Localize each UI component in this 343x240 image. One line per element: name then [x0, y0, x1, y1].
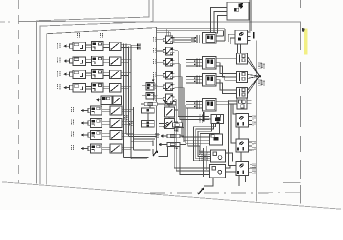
connector block R3: [237, 87, 248, 98]
wires box D to fuse R4: [216, 100, 237, 102]
relay M2 right pin stubs: [173, 48, 175, 50]
wire box C to relay R2 lower pin: [216, 77, 236, 81]
row 4 output wires to bus: [121, 85, 131, 87]
fuse P7 with left arrow: [167, 134, 180, 138]
flow arrow symbol lower left of strip: [153, 151, 157, 156]
fuse strip connection wires: [149, 106, 151, 108]
row 1 terminal label: [57, 43, 59, 49]
bus turn-outs to fuse strip (4-wire fan): [126, 133, 160, 135]
motor unit M9 (square+circle): [211, 150, 226, 162]
relay row 1 box 2: [92, 41, 104, 50]
long bus drops to unit M10: [176, 100, 209, 171]
elbow wires box B down to relay R2: [216, 63, 236, 74]
relay T right side pin stubs: [248, 31, 251, 33]
relay pair K at bus left (upper): [146, 83, 154, 91]
central bus wire drops with elbows to bottom units: [178, 51, 209, 117]
fuse F3: [141, 108, 154, 113]
switch row 1 box 3: [110, 42, 122, 50]
row 1 extension wires to terminals: [131, 44, 141, 46]
row 9 input arrow: [96, 98, 99, 101]
relay T left hook wires: [228, 34, 235, 42]
relay row 9 box 1: [101, 96, 112, 104]
relay R5 right pin wires: [248, 116, 252, 118]
wires rising into box B from below rule: [210, 8, 226, 34]
relay row 4 box 2: [92, 83, 104, 92]
relay T (top right, with pump symbol): [235, 30, 248, 44]
row 3 connector pin square: [70, 72, 73, 76]
column label 76 above left block: [77, 33, 79, 37]
relay R6 (with pump symbol): [236, 139, 249, 152]
relay M4 label: [153, 72, 155, 77]
control box A (with dark core) top: [203, 32, 216, 43]
row 8 output wires to bus: [122, 146, 134, 148]
page border: bottom slanted edge: [2, 182, 341, 209]
switch S5: [164, 107, 174, 117]
harness frame line 1 (outer): [36, 0, 149, 184]
fuse-relay row 4 box 1: [73, 84, 86, 92]
relay M6 in middle column: [165, 94, 172, 103]
relay M3 in middle column: [165, 58, 172, 66]
elbow wires box C down to relay R3: [216, 80, 236, 90]
row 7 wire pair: [102, 133, 110, 135]
fuse-relay row 3 box 1: [73, 70, 86, 78]
control unit M7 (bottom): [211, 114, 224, 123]
row 5 output wires to bus: [122, 108, 134, 110]
fuse id label right of S6: [174, 128, 176, 131]
row 4 connector pin square: [70, 85, 73, 89]
row 1 output wires to bus: [121, 44, 131, 46]
row 2 wire pair box2-box3: [103, 59, 110, 61]
wires box A up to bus: [216, 35, 224, 37]
row 6 input arrow: [81, 121, 84, 124]
concentric loop wires M7 to M9 (outer): [194, 123, 216, 160]
row 5 terminal label: [70, 107, 72, 113]
fuse P2 (horizontal pill): [164, 101, 176, 105]
box B internal contact mark: [238, 3, 243, 9]
row 5 input arrow: [81, 109, 84, 112]
concentric loop wires M7 to M9 (second): [196, 123, 214, 158]
relay R6 right pin wires: [248, 141, 252, 143]
switch row 2 box 3: [110, 57, 122, 65]
wire junction dots row A: [195, 37, 196, 38]
relay T dark coil blob: [238, 38, 241, 41]
row 1 terminal tick marks: [137, 44, 138, 47]
relay R5 pin labels: [252, 116, 254, 120]
M7 inline connector tick: [203, 112, 204, 122]
row 8 connector pin square: [88, 146, 91, 150]
relay M2 in middle column: [165, 47, 172, 55]
row 8 wire pair: [102, 146, 110, 148]
risers from junction row to relay T: [223, 31, 225, 36]
box B left wires with connector ticks: [186, 59, 203, 61]
relay M2 label: [153, 48, 155, 53]
row 6 wire pair: [102, 121, 110, 123]
fuse P0 on bus: [173, 123, 183, 127]
switch row 5 box 2: [110, 106, 122, 115]
row 8 terminal label: [70, 145, 72, 151]
row 2 input arrow: [63, 59, 66, 62]
row 1 connector pin square: [70, 44, 73, 48]
cable wires left of M9/M10: [203, 148, 205, 177]
wires M10 to relay R7: [225, 166, 230, 169]
page border: right vertical rule (broken): [300, 0, 302, 8]
row 7 connector pin square: [88, 133, 91, 137]
wire P1-P2: [157, 103, 164, 105]
wire R5 down to R6: [238, 127, 240, 139]
row 1 wire pair box2-box3: [103, 44, 110, 46]
control unit box B (top, above rule): [227, 2, 249, 20]
row 5 wire pair: [102, 108, 110, 110]
relay M4 right pin stubs: [173, 72, 175, 74]
bus wire id labels: [124, 115, 126, 120]
relay M1 left pin: [163, 38, 165, 41]
control box B (with dark core): [203, 57, 216, 70]
left harness bus wires: [123, 44, 125, 158]
junction bars after relay M1: [191, 37, 192, 43]
wire S6 output to bus: [175, 126, 185, 128]
bottom unit cable labels: [199, 151, 201, 161]
relay pair K at bus left (lower): [146, 93, 154, 100]
fuse P1 (horizontal pill): [144, 102, 157, 106]
short horizontal tick near right border: [283, 182, 301, 184]
row 1 input arrow: [63, 45, 66, 48]
fuse-relay row 1 box 1: [73, 42, 86, 50]
fuse P8 with left arrow: [167, 142, 180, 146]
relay row 6 box 1: [91, 119, 102, 128]
relay row 3 box 2: [92, 69, 104, 78]
wire R6 down to R7: [240, 152, 242, 161]
row 6 output wires to bus: [122, 121, 134, 123]
connector block R2: [237, 72, 248, 83]
row 2 terminal label: [57, 58, 59, 64]
row 1 wire pair box1-box2: [86, 44, 92, 46]
row 7 output wires to bus: [122, 133, 134, 135]
relay pair K wires to frame bus: [154, 85, 158, 87]
relay M6 right pin stubs: [173, 96, 175, 98]
harness frame line 2 (middle): [40, 0, 153, 184]
switch row 7 box 2: [110, 131, 122, 140]
row 2 connector pin square: [70, 59, 73, 63]
feed bus drops into fuse box row: [165, 29, 167, 36]
yellow highlighter streak: [304, 29, 308, 55]
control unit M8 (bottom): [210, 134, 223, 145]
row 2 wire pair box1-box2: [86, 59, 92, 61]
page border: left margin horizontal dash: [0, 21, 10, 23]
relay M6 left pin: [163, 97, 165, 100]
row 3 terminal label: [57, 71, 59, 77]
fuse P0 id label: [175, 128, 177, 131]
row 3 wire pair box2-box3: [103, 72, 110, 74]
fuse P7/P8 output wires: [180, 136, 184, 142]
drop from M10 with arrow: [204, 178, 213, 186]
relay M1 right pin stubs: [173, 37, 175, 39]
column label 56 above left block: [100, 33, 102, 37]
dash-dot section line bottom right: [150, 192, 301, 195]
relay M1 in middle column: [165, 36, 172, 44]
wire box B to relay R1: [216, 58, 236, 60]
row 7 terminal label: [70, 132, 72, 138]
connector block R1: [237, 53, 248, 64]
stub wires with ring terminals: [159, 123, 166, 125]
wire fan converging to splice node: [247, 56, 259, 76]
control box C (with dark core): [203, 74, 216, 87]
long wire from relay T down right side to bottom edge: [255, 41, 257, 202]
wire M9 to relay R7 top: [225, 153, 232, 161]
label F6: [155, 133, 157, 138]
control box D (with dark core): [203, 99, 216, 112]
relay M3 right pin stubs: [173, 59, 175, 61]
box D left wires with connector ticks: [186, 101, 203, 103]
box B internal coil rectangle: [234, 8, 239, 11]
wires from relay T down to relay R1: [237, 44, 239, 53]
dashed drop wires below fuse strip: [152, 141, 154, 147]
relay R7 bottom drop wires: [238, 176, 240, 187]
relay row 7 box 1: [91, 131, 102, 140]
relay M5 label: [153, 84, 155, 89]
fuse R4 side wires: [229, 99, 238, 101]
relay row 2 box 2: [92, 56, 104, 65]
fuse-relay row 2 box 1: [73, 57, 86, 65]
row 6 terminal label: [70, 120, 72, 126]
relay row 5 box 1: [91, 106, 102, 115]
row 6 connector pin square: [88, 121, 91, 125]
dark connector bar right of relay T: [253, 32, 255, 39]
relay R5 (with pump symbol): [236, 114, 249, 128]
relay R6 pin labels: [252, 141, 254, 145]
switch row 3 box 3: [110, 70, 122, 78]
concentric loop wires M7 to M9 (inner): [200, 123, 219, 154]
row 3 wire pair box1-box2: [86, 72, 92, 74]
row 2 output wires to bus: [121, 59, 131, 61]
relay R7 (with pump symbol): [236, 161, 249, 175]
switch row 4 box 3: [110, 84, 122, 92]
fuse block R4: [237, 98, 247, 109]
row 4 wire pair box1-box2: [86, 85, 92, 87]
row 5 connector pin square: [88, 108, 91, 112]
relay M3 label: [153, 59, 155, 64]
concentric loop wires M7 to M9 (third): [198, 123, 212, 156]
splice labels: [258, 63, 260, 69]
middle column output wires to bus: [173, 39, 191, 41]
dark pen mark at top of yellow streak: [302, 28, 305, 32]
relay M2 left pin: [163, 49, 165, 52]
row 7 input arrow: [81, 133, 84, 136]
relay M5 left pin: [163, 85, 165, 88]
drop wire to relay R5: [233, 104, 236, 114]
fuse P1 left stub: [141, 103, 144, 105]
row 4 wire pair box2-box3: [103, 85, 110, 87]
splice node dot: [259, 75, 261, 77]
row 4 terminal label: [57, 84, 59, 90]
relay row 8 box 1: [91, 144, 102, 153]
fuse F4 (double): [141, 121, 154, 128]
switch row 9 box 2: [113, 96, 122, 104]
switch row 8 box 2: [110, 144, 122, 153]
relay M3 left pin: [163, 61, 165, 64]
relay M4 in middle column: [165, 71, 172, 79]
relay M5 right pin stubs: [173, 84, 175, 86]
relay M4 left pin: [163, 74, 165, 77]
fuse id label below P8: [174, 146, 176, 149]
row 8 input arrow: [81, 147, 84, 150]
harness frame line 3 (inner, turns down into bus): [47, 28, 157, 185]
relay M6 label: [153, 96, 155, 101]
right side drop bus from fuse R4: [229, 100, 236, 165]
switch S6: [164, 119, 174, 129]
top feed bus wires: [157, 28, 226, 30]
fuse P8 return elbow wire: [159, 146, 168, 156]
page border: left dashed margin line: [18, 0, 20, 184]
relay R7 right pin wires: [250, 163, 252, 165]
row 3 input arrow: [63, 73, 66, 76]
row 4 input arrow: [63, 86, 66, 89]
relay R7 pin labels: [252, 163, 254, 167]
box C left wires with connector ticks: [186, 76, 203, 78]
page border: top horizontal rule: [18, 21, 301, 24]
down arrow mark above relay pair K: [152, 76, 154, 79]
switch row 6 box 2: [110, 119, 122, 128]
relay M1 label: [153, 37, 155, 42]
row 3 output wires to bus: [121, 72, 131, 74]
relay M5 in middle column: [165, 83, 172, 90]
motor unit M10 (square+circle): [210, 164, 226, 177]
inline connector ticks row A: [196, 35, 199, 43]
double wire right of box B from page top down to relay T: [249, 0, 251, 31]
